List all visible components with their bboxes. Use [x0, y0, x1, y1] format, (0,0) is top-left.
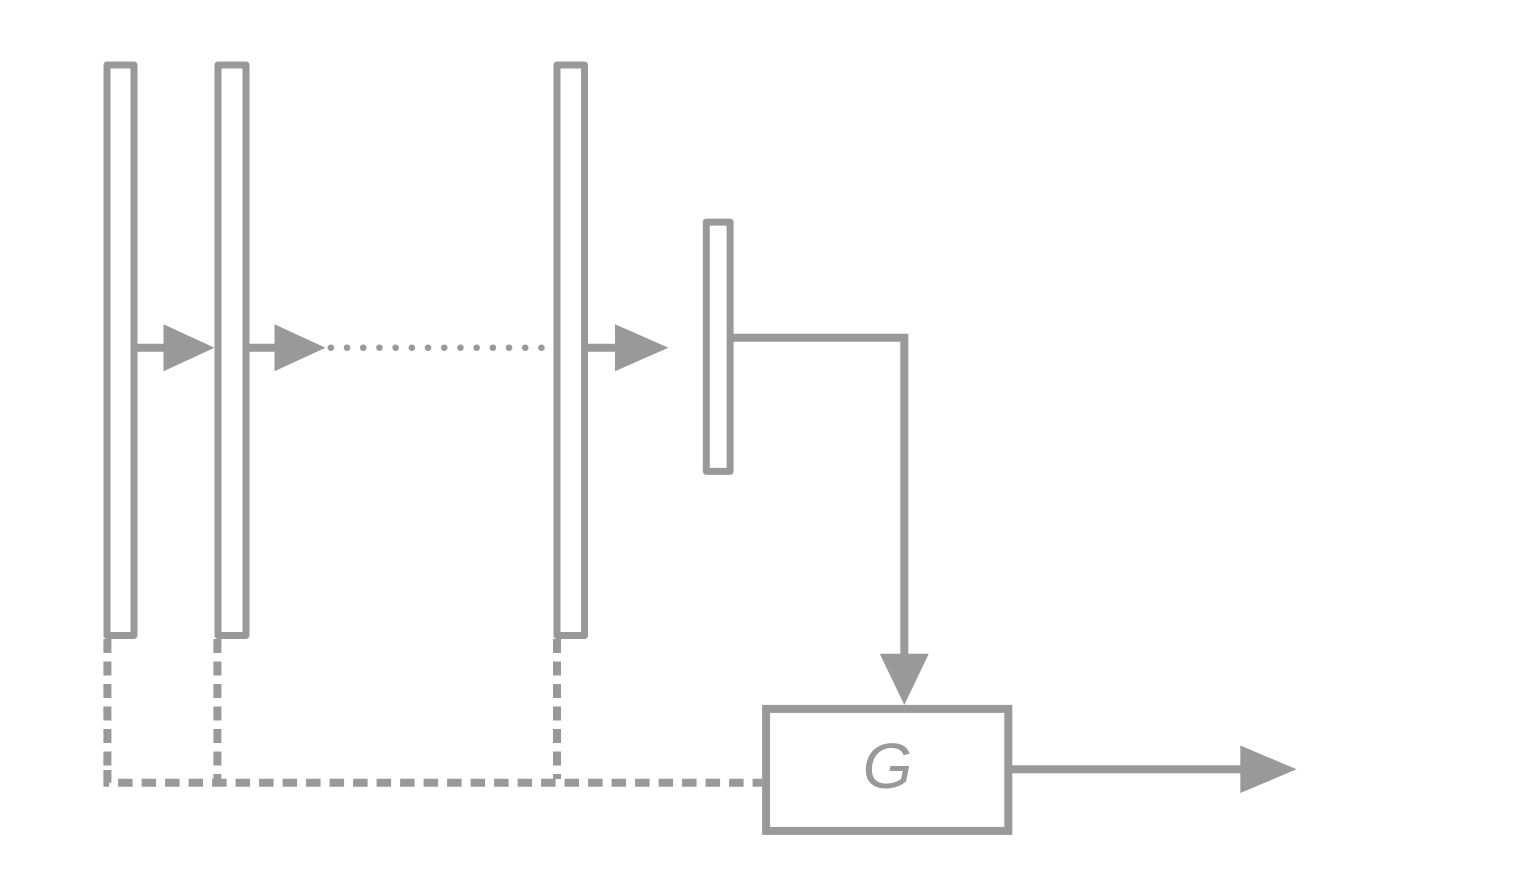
activation bar 1 [107, 65, 134, 636]
activation bar 3 [557, 65, 585, 636]
dashed horizontal line to G [107, 770, 762, 783]
arrow bar2 to dots shaft [246, 344, 277, 352]
arrow bar3 to small bar shaft [585, 344, 619, 352]
output arrow shaft [1008, 765, 1242, 773]
arrow bar1 to bar2 head [164, 324, 215, 371]
small bar 4 [706, 222, 730, 471]
arrow bar2 to dots head [275, 324, 326, 371]
svg-text:G: G [863, 730, 913, 802]
dotted continuation line [331, 344, 546, 351]
dashed drop line from bar 1 [103, 639, 111, 779]
arrow bar1 to bar2 shaft [134, 344, 166, 352]
activation bar 2 [218, 65, 246, 636]
elbow connector small bar to G [730, 338, 904, 655]
arrow bar3 to small bar head [615, 324, 669, 371]
generator box G [766, 709, 1008, 831]
dashed drop line from bar 3 [553, 639, 561, 779]
elbow connector arrowhead into G [880, 654, 929, 705]
output arrow head [1240, 746, 1296, 794]
dashed drop line from bar 2 [213, 639, 221, 779]
